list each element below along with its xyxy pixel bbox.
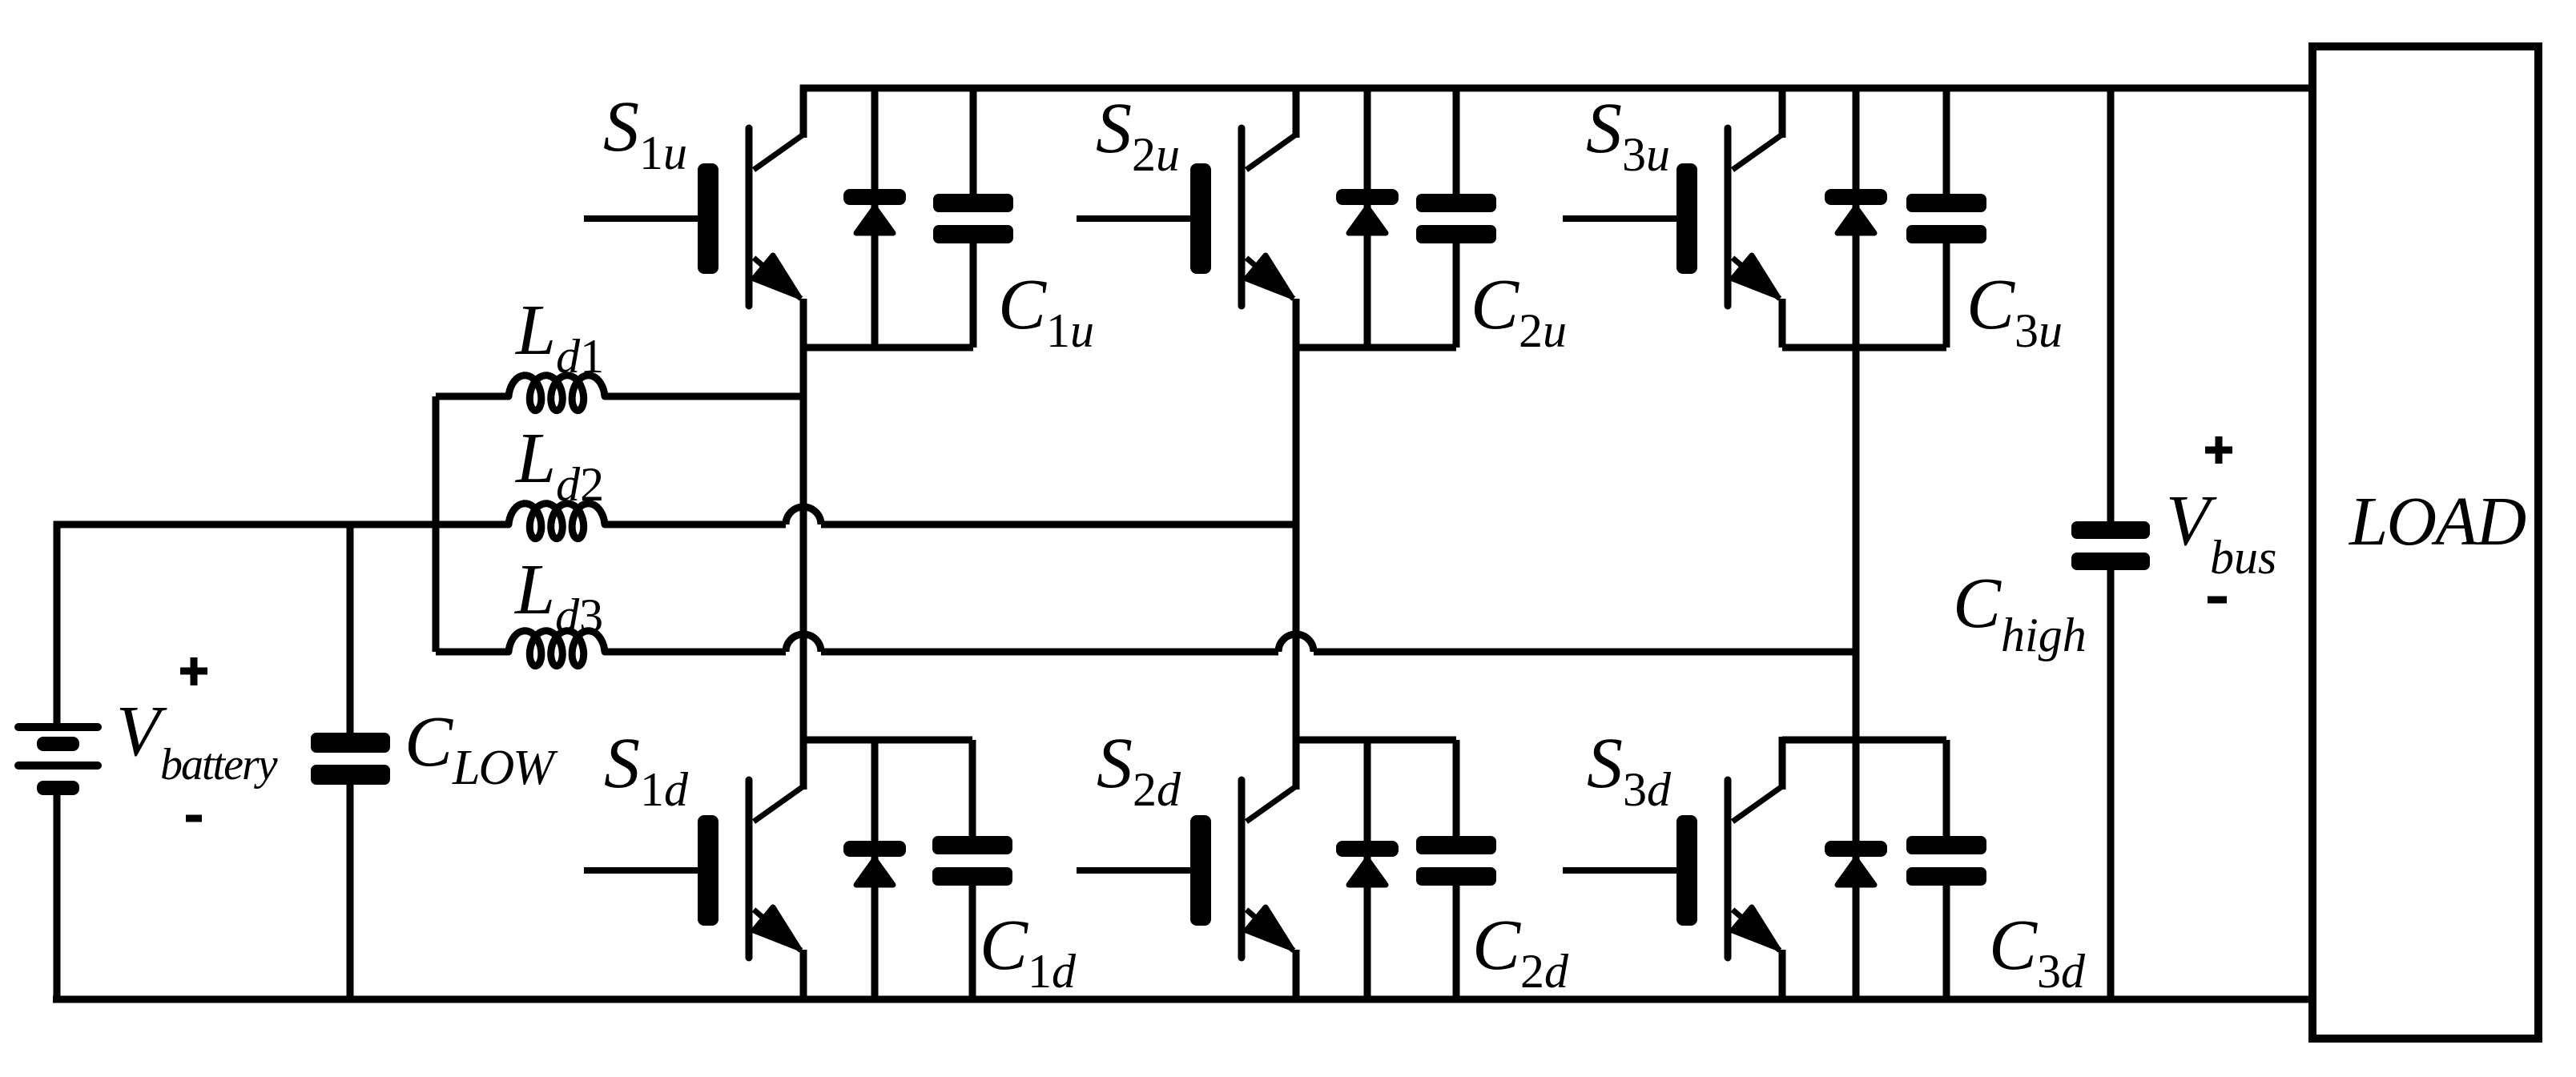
transistor S_1u: [584, 85, 803, 306]
svg-text:LOAD: LOAD: [2348, 482, 2526, 560]
transistor S_3d: [1563, 737, 1782, 958]
wire diode2d leg: [1364, 740, 1371, 999]
transistor S_1d: [584, 737, 803, 958]
capacitor C_high: [2071, 521, 2150, 570]
wire diode1u leg: [871, 88, 879, 348]
transistor S_2d: [1077, 737, 1296, 958]
transistor S_2u: [1077, 85, 1296, 306]
diode of S_2d: [1336, 841, 1399, 885]
battery plus sign: [180, 657, 207, 685]
wire phase3 mid vertical (diode leg): [1853, 88, 1860, 999]
diode of S_1d: [843, 841, 906, 885]
wire diode1d leg: [871, 740, 879, 999]
wire upper cell3 bottom: [1782, 344, 1946, 352]
transistor S_3u: [1563, 85, 1782, 306]
capacitor C_1d: [932, 836, 1012, 886]
wire Ld3 row with hops over phase1 and phase2: [436, 634, 1856, 652]
wire lower cell2 top: [1296, 737, 1456, 744]
diode of S_2u: [1336, 189, 1399, 233]
wire C_high legs: [2107, 88, 2115, 999]
diode of S_1u: [843, 189, 906, 233]
wire upper cell2 bottom: [1296, 344, 1456, 352]
diode of S_3d: [1825, 841, 1887, 885]
wire cap C2u leg: [1453, 88, 1460, 348]
wire phase3 emitter stub: [1779, 299, 1786, 348]
wire battery-plus / Ld2 feed: [57, 524, 509, 723]
Vbus minus sign: [2208, 597, 2227, 604]
inductor L_d3: [509, 631, 605, 666]
capacitor C_1u: [933, 194, 1013, 243]
Vbus plus sign: [2205, 436, 2232, 464]
wire battery-minus lead: [54, 795, 61, 999]
wire lower cell3 top: [1782, 737, 1946, 744]
capacitor C_2u: [1416, 194, 1496, 243]
wire diode2u leg: [1364, 88, 1371, 348]
capacitor C_2d: [1416, 836, 1496, 886]
wire S_2d emitter to bottom bus: [1293, 950, 1300, 999]
wire S_1d emitter to bottom bus: [800, 950, 807, 999]
wire inductor input bus: [433, 396, 440, 652]
wire phase2 vertical: [1293, 299, 1300, 790]
capacitor C_3d: [1906, 836, 1986, 886]
wire lower cell1 top: [803, 737, 972, 744]
load box: [2312, 46, 2538, 1039]
capacitor C_LOW: [311, 733, 390, 785]
inductor L_d1: [509, 376, 605, 411]
wire upper cell1 bottom: [803, 344, 973, 352]
capacitor C_3u: [1906, 194, 1986, 243]
wire top bus: [800, 85, 2310, 92]
wire Ld1 row: [436, 393, 803, 400]
wire cap C3u leg: [1943, 88, 1950, 348]
wire Ld2 row with hop over phase1: [605, 507, 1296, 524]
wire cap C2d leg: [1453, 740, 1460, 999]
battery V_battery: [14, 723, 102, 795]
diode of S_3u: [1825, 189, 1887, 233]
wire phase1 vertical: [800, 299, 807, 790]
wire cap C3d leg: [1943, 740, 1950, 999]
wire cap C1d leg: [969, 740, 976, 999]
battery minus sign: [186, 815, 202, 822]
inductor L_d2: [509, 504, 605, 539]
wire bottom bus: [53, 996, 2310, 1003]
wire C_LOW legs: [347, 524, 354, 999]
wire S_3d emitter to bottom bus: [1779, 950, 1786, 999]
wire cap C1u leg: [970, 88, 977, 348]
